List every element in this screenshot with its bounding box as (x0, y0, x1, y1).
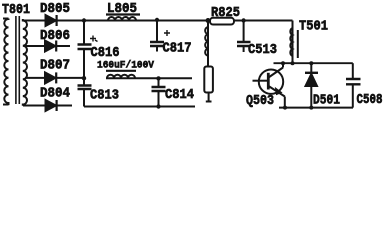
capacitor C817 (150, 42, 164, 46)
svg-text:C513: C513 (248, 43, 277, 58)
capacitor C817 wire down (156, 20, 158, 41)
capacitor C513 (237, 42, 251, 46)
node D junction dot (206, 18, 211, 23)
capacitor C508 (346, 63, 361, 107)
wire secondary tap to D807 (25, 77, 45, 79)
svg-text:T501: T501 (299, 20, 328, 35)
inductor choke row B (107, 75, 135, 79)
wire node E to T501 (244, 20, 293, 22)
node F junction dot (collector) (281, 61, 285, 65)
node A junction dot (82, 18, 86, 22)
ground rail left (C813/C814) (84, 106, 195, 108)
node I junction dot (emitter) (283, 106, 287, 110)
wire C816 to node B (83, 50, 85, 78)
transistor Q503 (253, 63, 285, 107)
inductor L805 (108, 17, 136, 21)
node L junction dot (C814 bottom) (156, 104, 160, 108)
node B junction dot (C816/C813) (82, 76, 86, 80)
wire D807 to node B (57, 77, 84, 79)
svg-text:C813: C813 (90, 89, 119, 104)
svg-text:T801: T801 (2, 3, 30, 18)
transformer T801 primary winding (left) (3, 19, 9, 106)
svg-text:D501: D501 (313, 94, 340, 109)
wire node A to L805 (84, 20, 108, 22)
capacitor C813 (78, 78, 92, 106)
wire choke to resistor (207, 21, 209, 67)
wire secondary tap to D804 (23, 105, 46, 107)
svg-text:Q503: Q503 (246, 94, 274, 109)
wire L805 to node C (106, 20, 157, 22)
wire C513 stub (243, 47, 245, 52)
wire D806 stub (57, 45, 70, 47)
wire D804 stub (58, 105, 73, 107)
wire secondary tap to D806 (25, 45, 45, 47)
capacitor C817 polarity + mark (164, 30, 170, 36)
diode D807 (45, 72, 56, 83)
wire row B C814 to end (159, 77, 193, 79)
diode D804 (46, 100, 57, 111)
node H junction dot (D501 top) (309, 61, 313, 65)
svg-text:C508: C508 (357, 93, 383, 108)
resistor R825 (210, 18, 234, 25)
transformer T801 core (16, 16, 19, 104)
collector rail wire (274, 62, 353, 64)
capacitor C816 polarity + mark (90, 36, 98, 42)
diode D806 (45, 41, 56, 52)
transformer T801 secondary winding (right) (23, 19, 27, 106)
wire row B choke to C814 (106, 77, 159, 79)
node C junction dot (155, 18, 159, 22)
svg-text:C817: C817 (163, 42, 192, 57)
transformer T501 winding (292, 21, 294, 64)
node G junction dot (T501 bottom) (291, 61, 295, 65)
wire resistor stub (206, 93, 212, 103)
capacitor C816 wire down (83, 21, 85, 44)
resistor (vertical, unlabeled) (204, 67, 213, 93)
wire D805 to node A (58, 20, 85, 22)
capacitor C816 (78, 45, 92, 50)
wire R825 to node E (234, 20, 244, 22)
transformer T501 core (297, 30, 299, 58)
inductor choke row B core bar (106, 70, 136, 72)
ground rail right (Q503/D501/C508) (279, 107, 353, 109)
svg-text:160uF/100V: 160uF/100V (97, 59, 155, 71)
node K junction dot (C814 top) (156, 76, 160, 80)
node J junction dot (D501 bottom) (309, 106, 313, 110)
inductor choke vertical at node D (205, 27, 208, 56)
wire secondary tap to D805 (23, 20, 46, 22)
node E junction dot (241, 18, 245, 22)
svg-text:C814: C814 (165, 88, 194, 103)
capacitor C513 wire down (243, 21, 245, 42)
diode D501 (305, 63, 318, 107)
inductor L805 core bar (106, 13, 140, 15)
wire C817 stub (156, 47, 158, 52)
diode D805 (46, 15, 57, 26)
capacitor C814 (152, 78, 166, 106)
wire node C to node D (157, 20, 208, 22)
